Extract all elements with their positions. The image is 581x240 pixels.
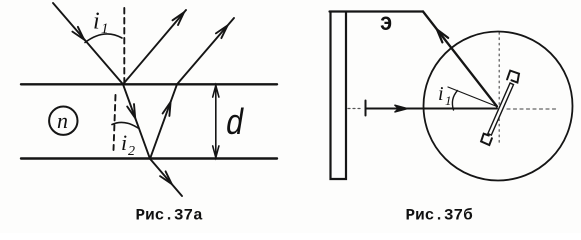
mirror normal (thin) — [448, 87, 497, 107]
angle arc i1 (right) — [452, 91, 457, 111]
svg-text:n: n — [57, 108, 68, 133]
vertical dashed axis — [498, 33, 500, 144]
mirror top end cap — [507, 71, 519, 83]
incident horizontal ray (right) — [366, 108, 498, 110]
slab bottom surface — [21, 157, 277, 159]
svg-text:1: 1 — [445, 93, 452, 108]
svg-text:1: 1 — [101, 21, 109, 37]
incident ray — [53, 3, 123, 84]
reflected ray — [123, 10, 186, 84]
angle arc i2 — [112, 122, 138, 128]
dashed continuation right of mirror — [507, 108, 558, 110]
svg-text:Э: Э — [380, 14, 392, 37]
svg-text:Рис.37а: Рис.37а — [136, 207, 204, 225]
svg-text:2: 2 — [128, 144, 135, 159]
horizontal ray arrowhead — [395, 105, 409, 112]
incident ray arrowhead — [72, 27, 84, 40]
mirror bar — [488, 83, 514, 135]
svg-text:d: d — [226, 105, 244, 146]
mirror bottom end cap — [481, 134, 492, 145]
normal dashed (below surface) — [114, 95, 116, 150]
d dimension arrow — [215, 86, 217, 158]
reflected ray arrowhead — [173, 12, 185, 25]
slab top surface — [21, 83, 277, 85]
transmitted ray — [150, 159, 182, 196]
normal dashed (above surface) — [123, 8, 125, 84]
svg-text:i: i — [93, 9, 100, 35]
svg-text:i: i — [121, 130, 127, 155]
refracted ray inside slab — [123, 84, 150, 159]
refracted ray arrowhead — [127, 104, 135, 118]
second exit ray arrowhead — [216, 26, 228, 39]
dashed line screen to tick — [348, 108, 363, 110]
svg-text:i: i — [438, 83, 444, 105]
screen rectangle (right figure) — [331, 12, 347, 179]
source tick — [365, 101, 367, 116]
internal ray arrowhead — [163, 102, 171, 116]
mirror circle — [424, 32, 573, 181]
screen/ceiling top line — [330, 10, 424, 12]
svg-text:Рис.37б: Рис.37б — [406, 207, 473, 225]
n circle — [49, 107, 77, 135]
reflected ray arrowhead (right) — [437, 30, 448, 43]
angle arc i1 — [85, 34, 122, 43]
transmitted ray arrowhead — [160, 171, 172, 184]
internally reflected ray — [150, 84, 177, 159]
second exit ray — [177, 18, 234, 84]
reflected ray to screen (right figure) — [423, 12, 497, 107]
